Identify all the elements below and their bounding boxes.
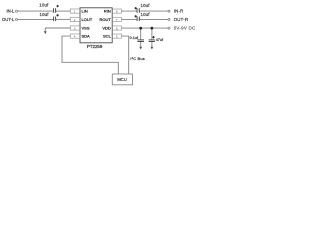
svg-text:10uf: 10uf xyxy=(141,3,151,8)
background xyxy=(0,0,200,88)
wire C2 to pin2 xyxy=(56,18,71,20)
terminal IN-R xyxy=(168,10,170,12)
pin 2 box xyxy=(70,17,79,21)
svg-text:IN-R: IN-R xyxy=(174,9,184,14)
svg-text:RIN: RIN xyxy=(104,9,111,14)
polarity + of C2 xyxy=(56,14,58,16)
junction node C6 xyxy=(151,27,154,30)
wire C6 to ground xyxy=(151,42,153,47)
polarity + of C1 xyxy=(56,5,58,7)
svg-text:8: 8 xyxy=(116,10,118,14)
svg-text:IN-L: IN-L xyxy=(6,9,15,14)
ground C5 xyxy=(139,47,142,50)
chip U1 PT2259 body xyxy=(80,8,112,43)
svg-text:I2C Bus: I2C Bus xyxy=(130,56,145,61)
wire OUT-L to C2 xyxy=(18,18,54,20)
svg-text:10uf: 10uf xyxy=(39,3,49,8)
MCU U2 xyxy=(112,74,132,85)
wire C5 to ground xyxy=(140,42,142,47)
svg-text:OUT-L: OUT-L xyxy=(2,17,15,22)
wire pin8 to C3 xyxy=(121,10,137,12)
svg-text:PT2259: PT2259 xyxy=(87,44,103,49)
pin 1 box xyxy=(70,9,79,13)
wire C5 drop xyxy=(140,28,142,40)
polarity + of C3 xyxy=(135,7,137,9)
ground C6 xyxy=(151,47,154,50)
svg-text:MCU: MCU xyxy=(117,77,127,82)
svg-text:VSS: VSS xyxy=(82,26,90,31)
wire SDA pin4 to MCU xyxy=(62,36,118,74)
wire IN-L to C1 xyxy=(18,10,54,12)
svg-text:1: 1 xyxy=(74,10,76,14)
polarity + of C6 xyxy=(152,36,154,38)
wire VDD pin6 to 5V-9V DC xyxy=(121,27,167,29)
pin 6 box xyxy=(113,26,122,30)
terminal IN-L xyxy=(16,10,18,12)
svg-text:VDD: VDD xyxy=(102,26,111,31)
wire SCL pin5 to MCU xyxy=(121,36,128,74)
pin 5 box xyxy=(113,34,122,38)
svg-text:10uf: 10uf xyxy=(40,12,50,17)
svg-text:OUT-R: OUT-R xyxy=(174,17,189,22)
svg-text:SCL: SCL xyxy=(103,34,112,39)
svg-text:10uf: 10uf xyxy=(141,12,151,17)
svg-text:5: 5 xyxy=(116,35,118,39)
capacitor C4 10uf xyxy=(137,17,139,22)
svg-text:LOUT: LOUT xyxy=(82,17,93,22)
terminal OUT-R xyxy=(168,18,170,20)
wire VSS pin3 to ground xyxy=(45,28,70,31)
svg-text:7: 7 xyxy=(116,18,118,22)
capacitor C2 10uf xyxy=(54,17,56,22)
pin 8 box xyxy=(113,9,122,13)
wire pin7 to C4 xyxy=(121,18,137,20)
svg-text:3: 3 xyxy=(74,26,76,30)
wire C4 to OUT-R xyxy=(139,18,168,20)
svg-text:0.1uf: 0.1uf xyxy=(130,36,139,40)
junction node C5 xyxy=(139,27,142,30)
capacitor C1 10uf xyxy=(54,8,56,13)
svg-text:5V-9V DC: 5V-9V DC xyxy=(174,25,196,30)
pin 7 box xyxy=(113,17,122,21)
svg-text:6: 6 xyxy=(116,26,118,30)
wire C6 drop xyxy=(151,28,153,40)
capacitor C3 10uf xyxy=(137,8,139,13)
svg-text:2: 2 xyxy=(74,18,76,22)
svg-text:SDA: SDA xyxy=(82,34,91,39)
capacitor C6 47uf xyxy=(149,40,155,42)
pin 3 box xyxy=(70,26,79,30)
svg-text:47uf: 47uf xyxy=(156,38,164,42)
terminal OUT-L xyxy=(16,18,18,20)
wire C1 to pin1 xyxy=(56,10,71,12)
ground VSS xyxy=(44,31,47,34)
capacitor C5 0.1uf xyxy=(137,40,144,42)
svg-text:LIN: LIN xyxy=(82,9,88,14)
polarity + of C4 xyxy=(135,15,137,17)
terminal 5V-9V DC xyxy=(168,27,170,29)
svg-text:ROUT: ROUT xyxy=(99,17,111,22)
pin 4 box xyxy=(70,34,79,38)
wire C3 to IN-R xyxy=(139,10,168,12)
svg-text:4: 4 xyxy=(74,35,76,39)
